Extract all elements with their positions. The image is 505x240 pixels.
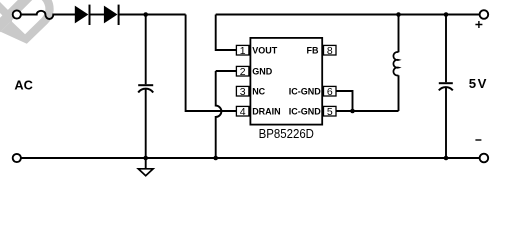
svg-text:3: 3 — [240, 86, 246, 98]
svg-text:5V: 5V — [469, 76, 488, 91]
svg-text:4: 4 — [240, 106, 246, 118]
svg-text:FB: FB — [307, 45, 319, 55]
svg-text:1: 1 — [240, 45, 246, 57]
svg-text:BP85226D: BP85226D — [259, 126, 314, 141]
svg-text:VOUT: VOUT — [252, 45, 278, 55]
svg-text:8: 8 — [327, 45, 333, 57]
svg-text:IC-GND: IC-GND — [289, 106, 321, 116]
svg-text:AC: AC — [14, 78, 32, 93]
svg-text:NC: NC — [252, 86, 265, 96]
svg-text:GND: GND — [252, 66, 273, 76]
svg-text:2: 2 — [240, 66, 246, 78]
svg-text:5: 5 — [327, 106, 333, 118]
svg-text:IC-GND: IC-GND — [289, 86, 321, 96]
svg-text:6: 6 — [327, 86, 333, 98]
svg-text:DRAIN: DRAIN — [252, 106, 281, 116]
